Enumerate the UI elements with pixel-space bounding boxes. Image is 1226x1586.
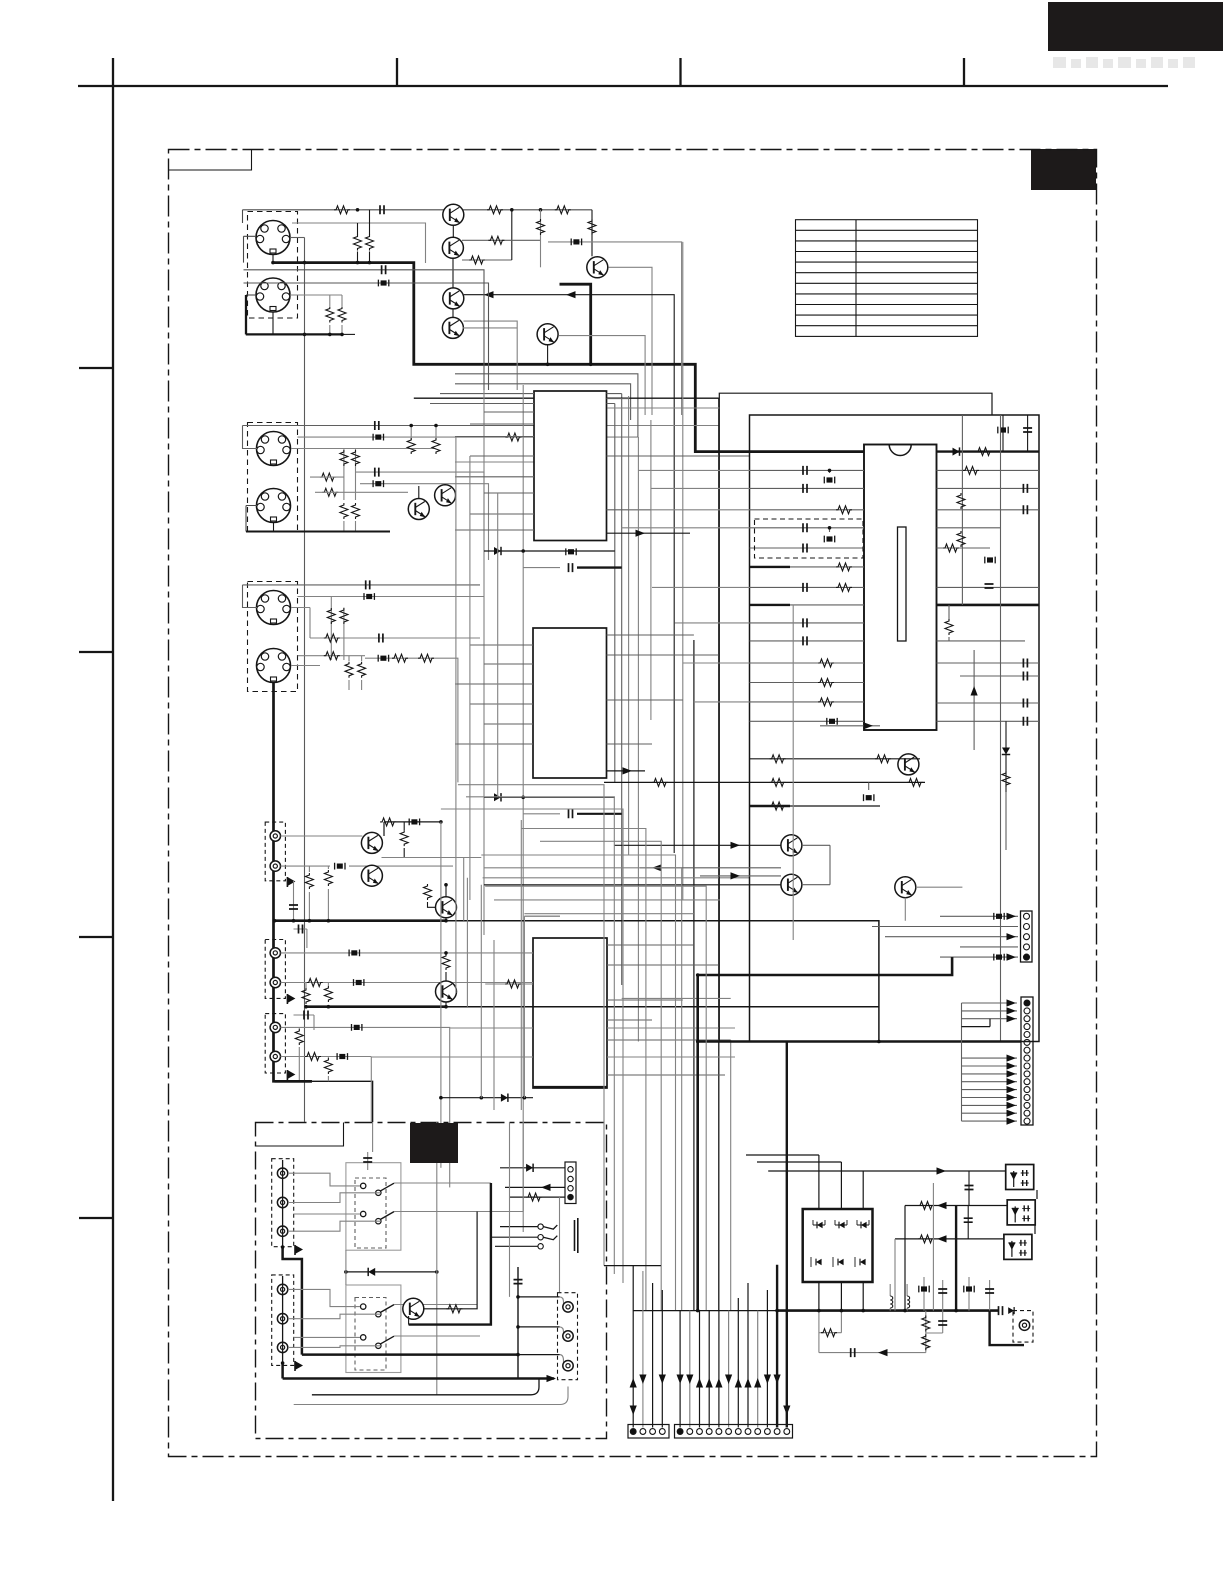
IC U1: [534, 391, 607, 541]
wire top row: [243, 210, 593, 263]
resistor R19: [305, 866, 313, 921]
transistor Q12: [436, 972, 457, 1007]
capacitor C10: [289, 880, 298, 921]
resistor R33: [818, 698, 834, 706]
switch SW1a: [361, 1183, 395, 1195]
capacitor C1: [380, 205, 384, 214]
jack arms gray: [560, 1297, 567, 1366]
thick ground bus 2: [306, 1005, 446, 1008]
sub RCA group 2 box: [272, 1275, 294, 1366]
corner label black box B: [1031, 149, 1096, 190]
thick emitter branch: [560, 284, 591, 364]
switch out rows: [394, 1183, 523, 1336]
ground flag: [287, 994, 295, 1004]
electrolytic C20: [827, 718, 837, 725]
wire vertical dark: [693, 640, 695, 1311]
arrow up: [971, 650, 978, 750]
bus continue: [446, 921, 879, 1042]
capacitor C39: [985, 1280, 994, 1311]
resistor R31: [818, 659, 834, 667]
DIN connector J1: [248, 212, 298, 319]
wire interior vertical: [792, 605, 794, 940]
capacitor rows lower right: [937, 641, 1040, 721]
switch block S1 dashed: [355, 1178, 386, 1248]
wire row long: [483, 877, 750, 879]
DIN connector J3: [248, 423, 298, 532]
wire vertical: [730, 1040, 732, 1311]
arrow row: [820, 722, 880, 729]
strip2 arrows: [1007, 999, 1017, 1124]
resistor R36: [943, 544, 959, 552]
RCA jack P3: [270, 948, 280, 958]
capacitor C13: [803, 466, 807, 475]
below IC row 3: [750, 802, 881, 810]
rounded return path: [312, 1379, 539, 1395]
wire gray vertical: [537, 210, 545, 267]
wire Q6 row: [559, 336, 645, 415]
capacitor C26: [985, 584, 994, 588]
resistor R43: [338, 295, 346, 334]
wire row with cap: [243, 421, 720, 449]
gray vertical: [932, 1183, 934, 1311]
diode D6: [813, 1220, 825, 1228]
transistor Q9: [361, 832, 382, 853]
wire jack row: [281, 979, 534, 987]
capacitor C24: [1023, 415, 1032, 452]
jack chain vertical: [282, 1160, 284, 1247]
IC U1 left pin rows: [455, 412, 534, 530]
wire J2 bottom: [272, 312, 274, 334]
resistor R11: [320, 473, 336, 481]
sub-board label tab: [256, 1123, 344, 1147]
transistor Q2: [442, 237, 463, 288]
arrow row: [700, 872, 781, 879]
resistor R12 wire: [315, 491, 408, 493]
IC U3: [533, 938, 607, 1088]
electrolytic C23: [998, 415, 1008, 452]
resistor R29: [836, 563, 852, 571]
capacitor C19: [803, 636, 807, 645]
wire arrow row: [607, 767, 646, 774]
IC U1 right rows: [607, 399, 750, 510]
wire verticals mid bundle: [441, 820, 525, 1122]
diode D9: [811, 1257, 822, 1267]
interior vertical: [1000, 415, 1002, 1042]
diode D12: [344, 1268, 439, 1276]
frame tick left 1: [79, 367, 113, 369]
bus continue: [446, 1006, 879, 1008]
wire row: [622, 997, 731, 999]
electrolytic C33: [994, 954, 1004, 961]
headphone rows: [490, 1227, 538, 1247]
diode D10: [833, 1257, 844, 1267]
wire rows to strip1: [872, 916, 1018, 957]
wire row: [608, 407, 720, 409]
transistor Q16 stubs: [905, 887, 962, 921]
wire rows right: [937, 528, 1040, 588]
capacitor C18: [803, 618, 807, 627]
main border label tab: [169, 150, 252, 171]
RCA jack P14: [563, 1302, 573, 1312]
switch SW2a: [361, 1304, 395, 1317]
wire J3 right pin: [291, 448, 436, 450]
diode D3 row: [484, 793, 615, 801]
electrolytic C7 + series resistors: [365, 654, 458, 782]
switch SW2b: [361, 1335, 395, 1349]
resistor R41: [510, 1193, 565, 1201]
block bottom stubs: [819, 1282, 863, 1311]
node: [356, 261, 360, 265]
wire top feed row: [380, 818, 443, 836]
IC U3 right rows: [607, 945, 731, 1075]
DIN connector J5: [248, 582, 298, 692]
resistor R12: [322, 488, 338, 496]
resistor R22: [302, 983, 310, 1009]
capacitor C35: [964, 1206, 973, 1239]
capacitor C17: [803, 583, 807, 592]
bus row thin: [633, 1310, 776, 1312]
capacitor C15: [803, 523, 807, 532]
transistor Q5: [587, 257, 608, 278]
optocoupler PC1: [1006, 1165, 1034, 1190]
transistor Q11: [436, 883, 457, 921]
DIN connector J2: [256, 278, 290, 312]
wire row: [455, 461, 534, 463]
wire Q4 base row: [464, 321, 518, 390]
switch block S1 frame: [346, 1163, 401, 1251]
IC U4 main: [864, 445, 937, 731]
thick pin stubs: [750, 567, 791, 605]
title block black box: [1048, 2, 1223, 51]
strip wires A2: [639, 1271, 646, 1428]
interior vertical: [961, 415, 963, 605]
RCA jack P2: [270, 861, 280, 871]
node: [328, 333, 344, 337]
row to opto3: [895, 1235, 1004, 1311]
vertical gray: [436, 1122, 438, 1395]
wire bundle top rows: [430, 374, 638, 985]
ground flag: [287, 877, 295, 887]
connector strip CN4: [675, 1425, 793, 1439]
diode D5: [1002, 721, 1010, 850]
wire bundle long verticals: [484, 242, 683, 1232]
diode D2 row: [484, 547, 615, 555]
resistor R27: [485, 980, 533, 988]
frame tick top 3: [963, 58, 965, 86]
capacitor C44: [244, 265, 485, 390]
connector strip CN5: [565, 1162, 576, 1204]
resistor R30: [836, 583, 852, 591]
capacitor C41: [975, 1306, 1014, 1315]
RCA jack P1: [270, 831, 280, 841]
wire Q4 emitter row: [463, 327, 518, 329]
thick divider: [937, 604, 1040, 607]
node dots sub: [281, 1245, 520, 1365]
wire row: [371, 1056, 735, 1058]
capacitor C9 row: [523, 809, 622, 818]
transistor Q13: [898, 754, 919, 775]
optocoupler PC3: [1004, 1234, 1032, 1259]
transistor Q15: [781, 874, 802, 895]
transistor Q6: [537, 324, 558, 366]
transistor Q3: [443, 288, 464, 318]
wire: [312, 1081, 373, 1122]
arrow rows: [614, 842, 781, 849]
diode D4 row: [441, 1094, 533, 1102]
RCA jack P4: [270, 977, 280, 987]
resistor R20: [324, 866, 332, 921]
resistor R9: [340, 449, 360, 501]
resonator X2: [824, 526, 834, 542]
frame tick left 4: [79, 1217, 113, 1219]
electrolytic C31: [864, 782, 874, 801]
transistor Q17: [403, 1298, 424, 1324]
transistor Q16: [895, 877, 916, 898]
resistor R1: [334, 206, 350, 214]
sub-board label black box repaint: [410, 1123, 458, 1163]
opto link wires: [1035, 1190, 1037, 1234]
wire jack row: [281, 1053, 372, 1123]
node: [589, 363, 593, 367]
frame tick left 3: [79, 936, 113, 938]
wire gray row: [292, 223, 426, 263]
resistor R11 wire: [310, 476, 344, 478]
wire bundle extra verticals: [456, 437, 498, 993]
electrolytic C4: [360, 480, 489, 560]
resistor R39: [819, 1311, 842, 1353]
thick emitter path: [409, 1183, 491, 1325]
wire arrow row: [607, 530, 691, 537]
ground flag: [295, 1361, 303, 1371]
switch SW1b: [361, 1211, 395, 1224]
RCA jack P15: [563, 1331, 573, 1341]
thick corner bus: [275, 1080, 312, 1083]
electrolytic C2: [298, 433, 638, 441]
coil L2: [907, 1284, 910, 1311]
strip wires B: [680, 1283, 767, 1428]
electrolytic C25: [985, 557, 995, 564]
strip2 feed: [962, 1003, 1018, 1121]
resistor R28: [836, 506, 852, 514]
thick vertical: [696, 975, 699, 1311]
sub RCA group 1 box: [272, 1159, 294, 1247]
relay block K1: [803, 1209, 873, 1282]
wire pin rows extension: [622, 470, 750, 702]
capacitor C43: [514, 1267, 523, 1379]
thick jog: [283, 1247, 302, 1355]
ground flag: [287, 1070, 295, 1080]
frame tick top 2: [679, 58, 681, 86]
vertical gray 2: [345, 1250, 347, 1285]
frame tick left 2: [79, 651, 113, 653]
DIN connector J4: [257, 489, 291, 523]
wire row long dark: [484, 884, 781, 886]
strip wires A1: [630, 1266, 637, 1428]
below IC row 2: [604, 778, 925, 786]
arrow feed row: [768, 1167, 1006, 1174]
IC U4 left pin rows: [750, 470, 865, 721]
coil L1: [890, 1284, 893, 1311]
capacitor C22: [937, 505, 1040, 514]
node dots power: [696, 1309, 958, 1313]
thick bus: [698, 957, 952, 975]
resistor R16: [298, 652, 366, 660]
strip wires A3: [652, 1283, 654, 1428]
electrolytic C38: [964, 1277, 974, 1311]
feed rows top of sub-board: [373, 1122, 524, 1212]
ground flag: [295, 1245, 303, 1255]
switch block S2 dashed: [355, 1298, 386, 1371]
electrolytic C36: [919, 1277, 929, 1311]
RCA jack P5: [270, 1022, 280, 1032]
wire J5 pin: [291, 608, 310, 639]
thick bus y1355: [302, 1353, 518, 1356]
vertical feed strip4: [559, 1197, 561, 1292]
diode D8: [857, 1220, 869, 1228]
capacitor C21: [937, 484, 1040, 493]
thick signal bus: [273, 263, 864, 452]
connector strip CN1: [1021, 911, 1033, 962]
electrolytic C6: [298, 593, 485, 600]
wire Q9 out: [382, 857, 482, 859]
wire: [802, 845, 830, 884]
wire jack row: [281, 835, 363, 837]
frame tick top 1: [396, 58, 398, 86]
node: [273, 919, 331, 923]
capacitor C11: [294, 925, 307, 949]
resistor R13: [407, 424, 440, 454]
capacitor C40: [926, 1311, 947, 1333]
resistor R25: [295, 1027, 303, 1081]
capacitor C37: [938, 1280, 947, 1311]
RCA jack P11: [277, 1284, 287, 1294]
RCA jack group 2 box: [265, 940, 285, 999]
RCA jack P7: [1013, 1311, 1033, 1343]
RCA jack P6: [270, 1051, 280, 1061]
headphone jack: [538, 1218, 578, 1253]
node: [510, 208, 514, 212]
resistor R5: [366, 210, 374, 263]
RCA jack P16: [563, 1361, 573, 1371]
capacitor C5: [243, 580, 481, 607]
RCA jack group 3 box: [265, 1014, 285, 1073]
node: [356, 208, 360, 212]
resistor R15: [310, 634, 480, 643]
arrow row: [505, 1184, 565, 1191]
capacitor C16: [803, 544, 807, 553]
wire jack row: [281, 950, 534, 957]
thick vertical: [955, 1206, 957, 1311]
zener D1: [548, 239, 682, 416]
arrows to strip1: [1007, 913, 1017, 961]
capacitor C14: [803, 484, 807, 493]
bus row: [604, 1265, 661, 1267]
sub-board dash-dot border: [256, 1123, 607, 1439]
thick strip wire 2: [786, 1042, 788, 1428]
resistor R10: [340, 503, 360, 532]
node: [304, 1005, 330, 1009]
resistor R35: [957, 493, 965, 547]
page frame left vertical: [112, 58, 114, 1501]
rounded return path 2: [294, 1387, 568, 1405]
wire jack row: [281, 863, 454, 870]
capacitor C34: [965, 1171, 974, 1206]
ground triangle: [547, 1375, 557, 1382]
IC U2 left rows: [455, 645, 533, 744]
connector strip CN3: [628, 1425, 669, 1439]
thick ground bus: [275, 919, 447, 922]
capacitor C28: [1023, 672, 1027, 681]
row to opto2: [905, 1202, 1007, 1311]
node dots mid: [439, 919, 881, 1100]
jack feed rows: [288, 1173, 381, 1347]
RCA jack P10: [277, 1226, 287, 1236]
diode D7: [835, 1220, 847, 1228]
capacitor row: [819, 1348, 926, 1357]
transistor Q7: [408, 486, 429, 520]
block feeds top: [746, 1155, 863, 1209]
resistor R2: [487, 206, 503, 214]
resistor R18: [400, 822, 408, 858]
below IC row 1: [750, 755, 921, 763]
wire J1 right pin: [290, 237, 305, 239]
thick corner: [990, 1311, 1024, 1346]
wire J2 left pin: [246, 294, 256, 296]
resonator X1: [824, 469, 834, 484]
electrolytic C32: [994, 913, 1004, 920]
RCA jack P8: [277, 1168, 287, 1178]
descending bundle rows: [441, 785, 720, 1311]
resistor R8: [588, 210, 596, 256]
transistor Q4: [442, 317, 463, 338]
transistor Q1: [443, 204, 464, 237]
PCB boundary B: [750, 415, 1040, 1042]
resistor R26: [324, 1057, 332, 1082]
ghost caption text: [1053, 57, 1195, 68]
strip wires A4: [659, 1290, 666, 1428]
resistor R42: [326, 295, 334, 334]
wire row: [524, 915, 560, 917]
wire J2 right pin: [290, 294, 342, 296]
node: [368, 261, 372, 265]
resistor R7: [462, 236, 541, 244]
diode D13: [500, 1164, 565, 1172]
PCB boundary A: [719, 393, 992, 1041]
arrow row left: [640, 864, 781, 871]
wire Q5 collector right: [608, 267, 652, 415]
resistor R6 emitter: [462, 210, 512, 264]
optocoupler PC2: [1007, 1200, 1035, 1225]
transistor Q14: [781, 835, 802, 856]
capacitor C8 row: [523, 563, 622, 572]
thick bottom bus: [698, 1040, 1021, 1043]
resistor R23: [324, 983, 332, 1007]
thick bus y1378: [283, 1377, 555, 1380]
capacitor C29: [1023, 699, 1027, 708]
thick strip wire: [776, 1265, 778, 1428]
capacitor C12: [294, 1011, 315, 1031]
RCA jack group 1 box: [265, 822, 285, 881]
wire J6 ground thick vertical: [274, 683, 312, 1082]
IC U2 right rows: [607, 635, 719, 744]
switch block S2 frame: [346, 1285, 401, 1373]
page frame top horizontal: [78, 85, 1168, 87]
strip wires B arrows: [677, 1375, 791, 1416]
parts table: [796, 220, 978, 337]
capacitor C3: [355, 468, 484, 540]
dashed option box: [755, 519, 864, 558]
resistor R32: [818, 679, 834, 687]
